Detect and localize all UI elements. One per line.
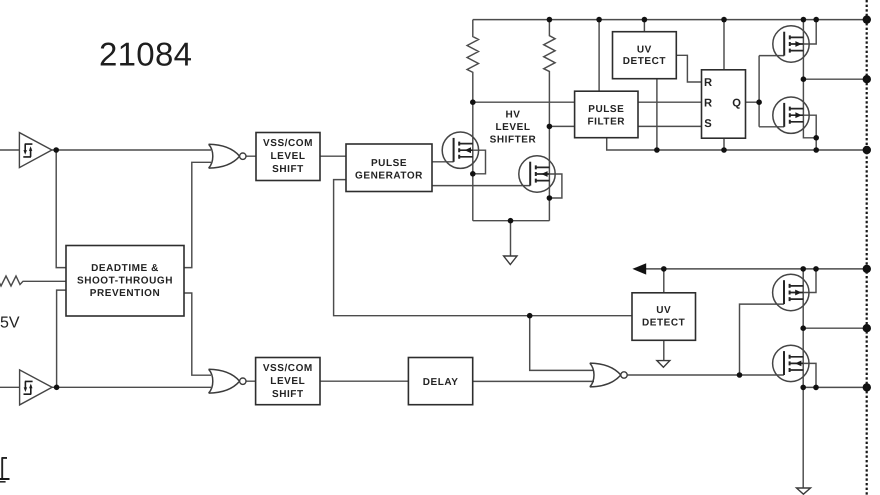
svg-text:R: R	[704, 77, 712, 89]
svg-text:LEVEL: LEVEL	[270, 376, 305, 387]
svg-text:SHOOT-THROUGH: SHOOT-THROUGH	[77, 275, 173, 286]
svg-text:DELAY: DELAY	[423, 377, 459, 388]
svg-text:PULSE: PULSE	[588, 104, 624, 115]
svg-text:HV: HV	[506, 109, 521, 120]
svg-text:GENERATOR: GENERATOR	[355, 170, 423, 181]
svg-text:DETECT: DETECT	[623, 56, 666, 67]
svg-text:21084: 21084	[99, 36, 192, 73]
svg-text:DEADTIME &: DEADTIME &	[91, 263, 159, 274]
svg-text:FILTER: FILTER	[588, 117, 626, 128]
svg-text:VSS/COM: VSS/COM	[263, 363, 313, 374]
svg-text:R: R	[704, 97, 712, 109]
svg-text:PREVENTION: PREVENTION	[90, 288, 161, 299]
svg-text:DETECT: DETECT	[642, 317, 685, 328]
svg-text:VSS/COM: VSS/COM	[263, 138, 313, 149]
svg-text:LEVEL: LEVEL	[271, 151, 306, 162]
svg-text:UV: UV	[656, 305, 671, 316]
svg-text:LEVEL: LEVEL	[496, 122, 531, 133]
svg-text:S: S	[704, 118, 712, 130]
svg-text:SHIFT: SHIFT	[272, 389, 304, 400]
svg-text:SHIFT: SHIFT	[272, 164, 304, 175]
svg-text:5V: 5V	[0, 315, 20, 332]
svg-text:Q: Q	[732, 97, 741, 109]
svg-text:SHIFTER: SHIFTER	[490, 134, 537, 145]
svg-text:PULSE: PULSE	[371, 158, 407, 169]
svg-text:UV: UV	[637, 44, 652, 55]
